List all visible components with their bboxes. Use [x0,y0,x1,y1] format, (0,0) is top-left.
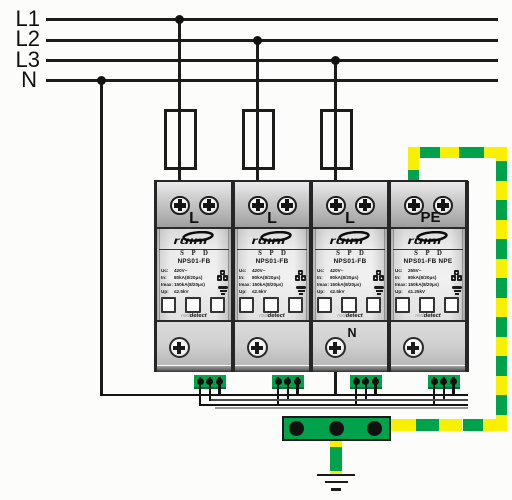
svg-text:ruını: ruını [408,235,442,247]
svg-text:ruını: ruını [174,235,208,247]
svg-text:ruını: ruını [330,235,364,247]
svg-text:ruını: ruını [252,235,286,247]
